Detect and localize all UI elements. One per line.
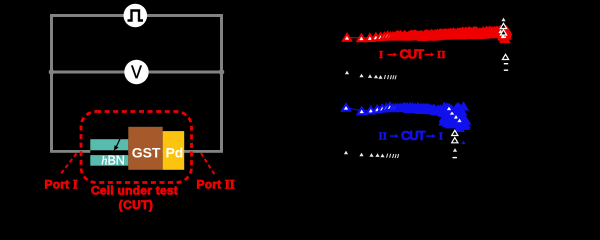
svg-text:CUT: CUT bbox=[401, 128, 426, 143]
svg-text:I: I bbox=[379, 49, 383, 61]
red HRS data line+symbols (I to CUT to II) bbox=[343, 27, 511, 42]
wire: top horizontal bbox=[50, 14, 223, 17]
node: right junction bbox=[219, 69, 225, 75]
pointer: Port I dashed leader bbox=[60, 154, 77, 176]
gap between hBN layers bbox=[90, 150, 128, 155]
label: Port I bbox=[45, 178, 78, 192]
node: left junction bbox=[49, 69, 55, 75]
svg-text:I: I bbox=[439, 131, 443, 143]
wire: left vertical bbox=[50, 14, 53, 153]
label: (CUT) bbox=[119, 198, 154, 212]
voltmeter V bbox=[124, 60, 148, 84]
white marks at red series end bbox=[500, 18, 508, 71]
svg-text:II: II bbox=[379, 131, 388, 143]
white interiors of black LRS open triangles, forward direction bbox=[345, 71, 397, 80]
blue end-of-life scatter bbox=[440, 103, 468, 144]
svg-text:Port I: Port I bbox=[45, 178, 78, 192]
arrow pointing into hBN gap bbox=[114, 137, 121, 150]
Pd block bbox=[163, 131, 185, 170]
cell under test: red dashed outline bbox=[81, 112, 192, 183]
label I -> CUT -> II bbox=[379, 46, 446, 61]
svg-text:Cell under test: Cell under test bbox=[91, 184, 178, 198]
svg-text:hBN: hBN bbox=[101, 154, 125, 168]
white marks at blue series end bbox=[452, 130, 458, 158]
svg-text:GST: GST bbox=[132, 145, 161, 161]
white interiors of black LRS open triangles, reverse direction bbox=[344, 151, 399, 158]
GST block bbox=[128, 127, 162, 170]
svg-text:CUT: CUT bbox=[400, 46, 425, 61]
blue HRS data line+symbols (II to CUT to I) bbox=[342, 103, 470, 129]
svg-text:(CUT): (CUT) bbox=[119, 198, 154, 212]
label: Cell under test bbox=[91, 184, 178, 198]
hBN bottom layer bbox=[90, 154, 128, 168]
wire: right vertical bbox=[220, 14, 223, 153]
svg-text:Port II: Port II bbox=[197, 178, 235, 192]
pointer: Port II dashed leader bbox=[201, 153, 216, 176]
svg-text:II: II bbox=[437, 49, 446, 61]
label II -> CUT -> I bbox=[379, 128, 443, 143]
wire: bottom horizontal through cell bbox=[50, 150, 223, 153]
red end-of-life scatter bbox=[495, 26, 510, 42]
label: Port II bbox=[197, 178, 235, 192]
wire: middle horizontal (voltmeter branch) bbox=[50, 71, 223, 74]
pulse generator symbol bbox=[124, 4, 148, 28]
hBN top layer bbox=[90, 139, 128, 150]
svg-text:Pd: Pd bbox=[165, 145, 183, 161]
